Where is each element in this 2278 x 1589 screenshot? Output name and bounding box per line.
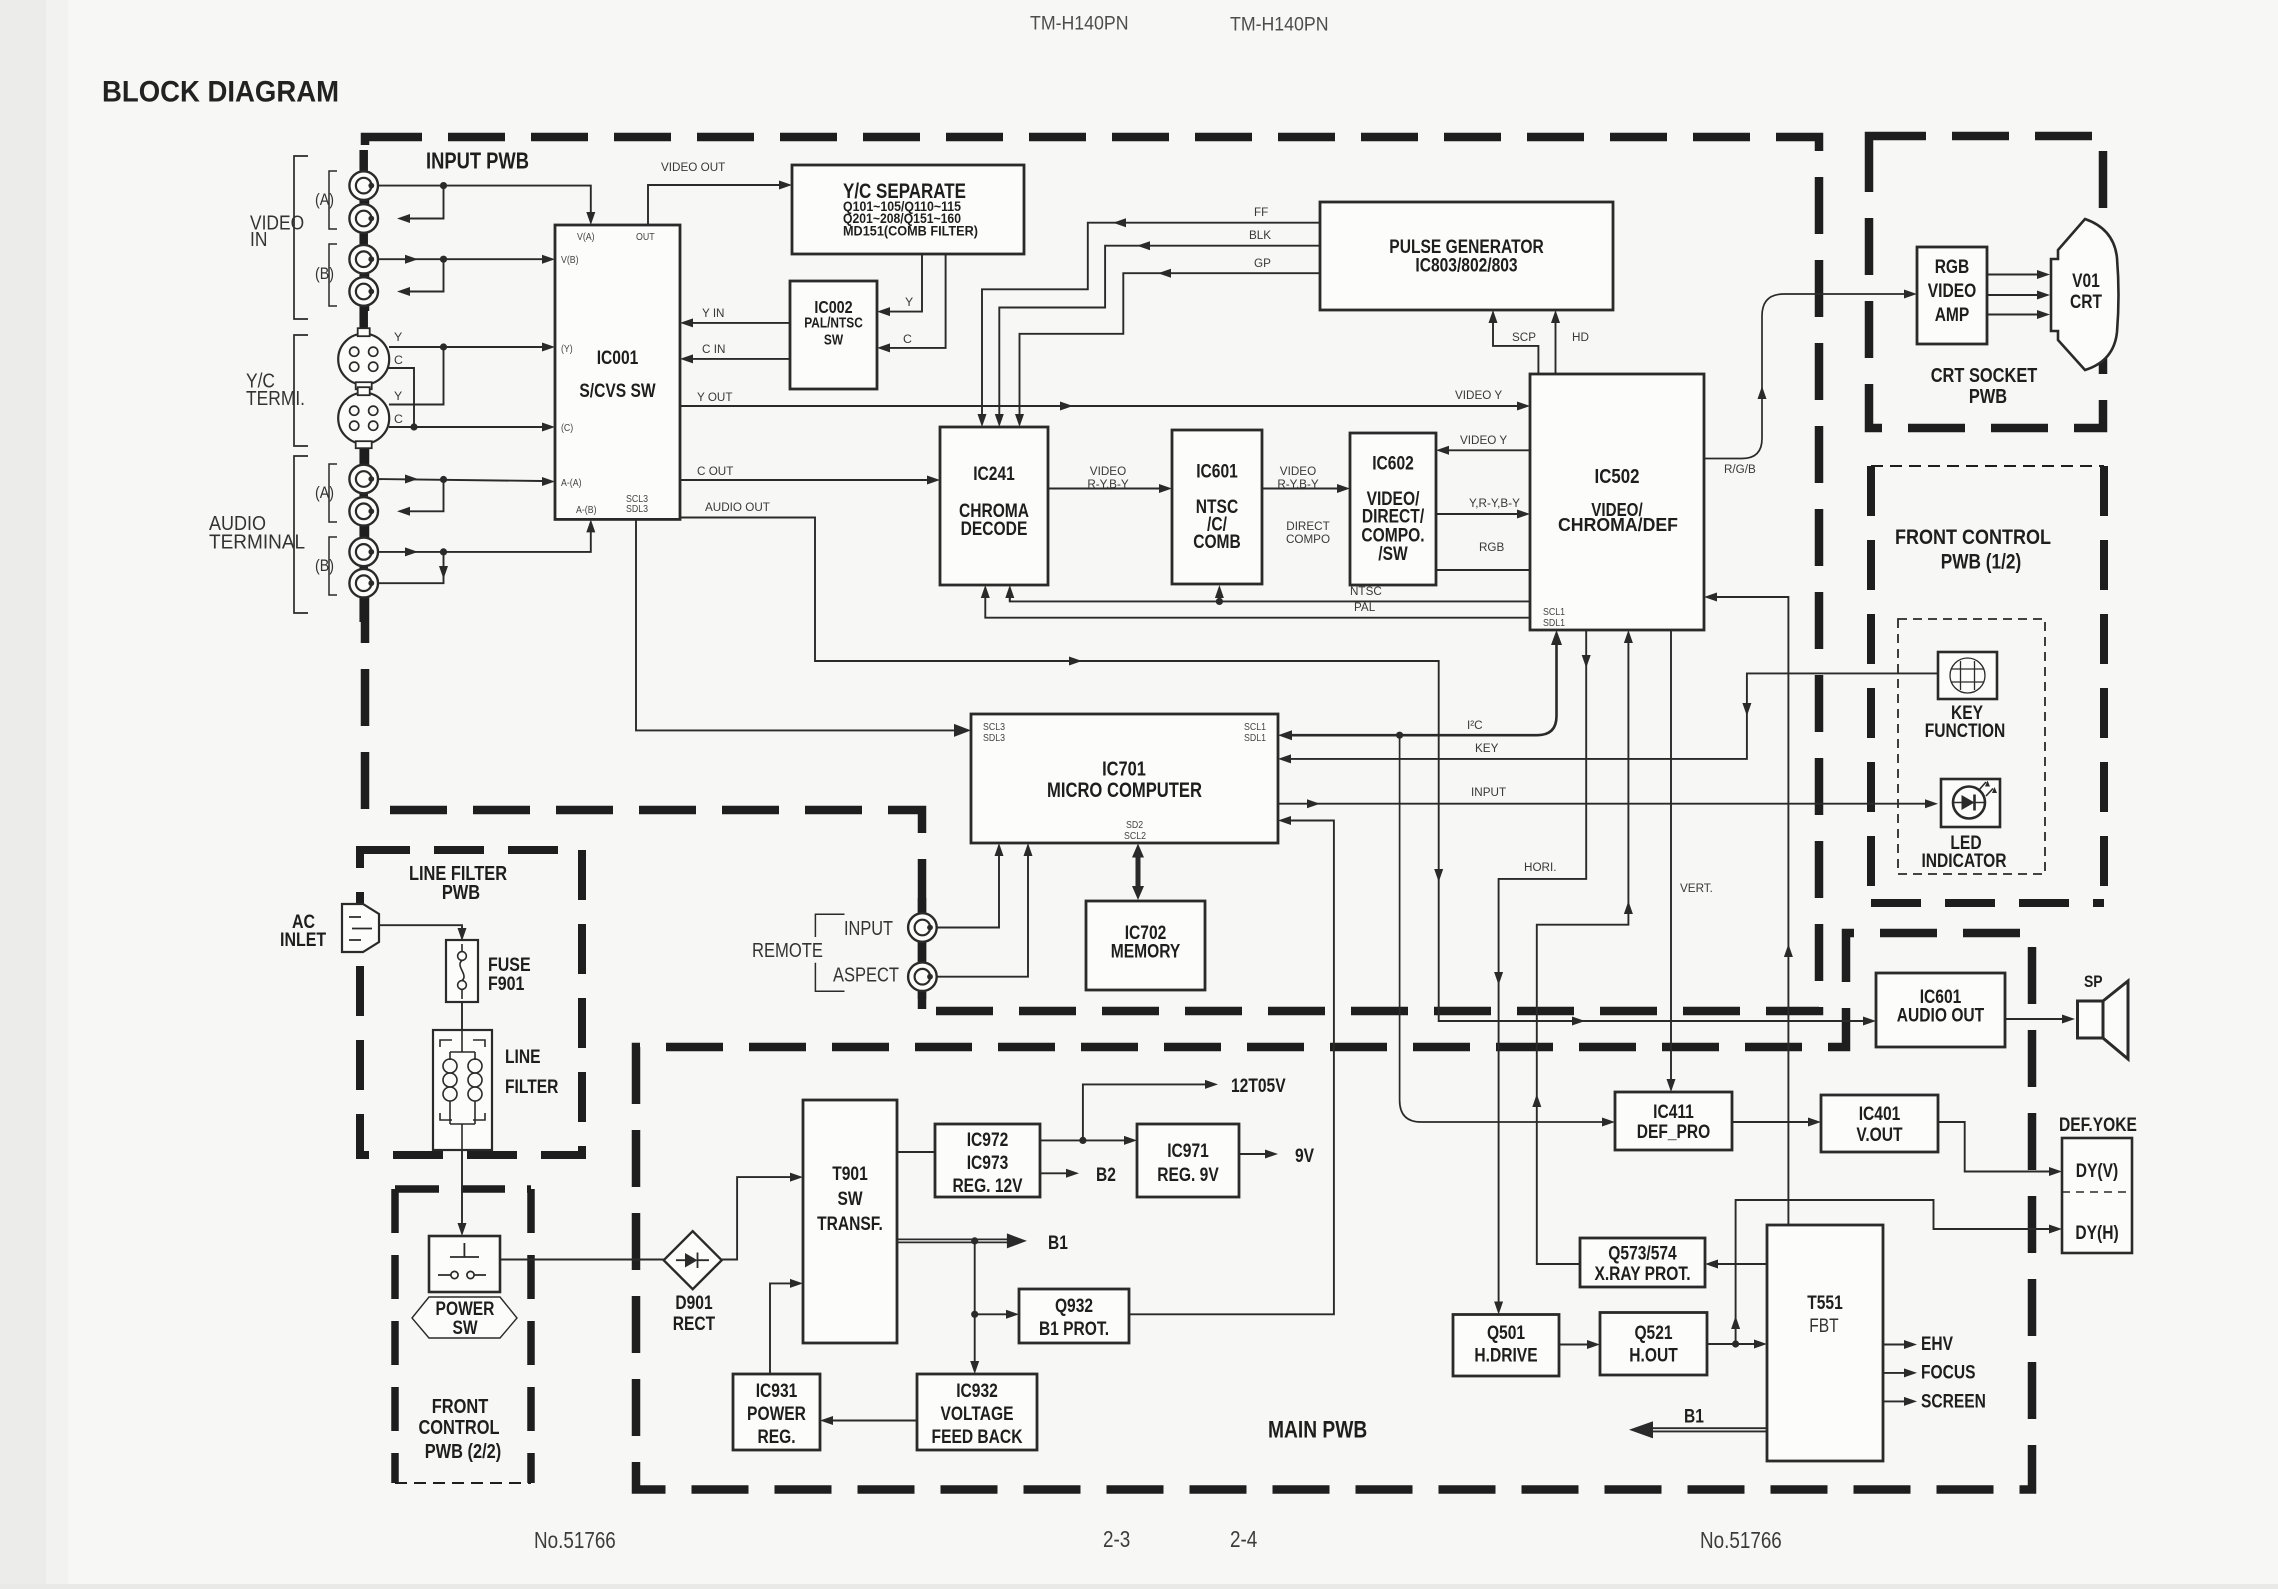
- IC241 CHROMA DECODE: [940, 427, 1048, 585]
- svg-text:SW: SW: [824, 332, 843, 348]
- wire: C IN from IC002 to IC001: [693, 358, 790, 360]
- svg-text:(C): (C): [561, 423, 573, 434]
- wire: PAL from IC502 to IC241: [985, 598, 1530, 618]
- svg-text:FEED BACK: FEED BACK: [932, 1427, 1023, 1448]
- S-video connector: Y/C terminal A: [338, 334, 389, 385]
- wire: SCREEN output: [1883, 1400, 1904, 1402]
- svg-text:Y OUT: Y OUT: [697, 390, 733, 404]
- svg-text:TERMINAL: TERMINAL: [209, 532, 305, 554]
- svg-text:SCL1: SCL1: [1543, 607, 1565, 618]
- svg-text:AUDIO OUT: AUDIO OUT: [705, 500, 770, 514]
- RCA jack: audio A1: [349, 465, 378, 494]
- wire: RGB from IC602 to IC502: [1436, 569, 1530, 571]
- svg-text:HD: HD: [1572, 330, 1589, 344]
- svg-text:VIDEO Y: VIDEO Y: [1455, 388, 1502, 402]
- svg-text:IN: IN: [250, 229, 267, 251]
- wire: Y OUT / VIDEO Y long line from IC001 to IC502: [680, 405, 1517, 407]
- wire: Y IN from IC002 to IC001: [693, 322, 790, 324]
- wire: video A1 to IC001 V(A): [372, 186, 591, 212]
- wire: KEY from KEY FUNCTION to IC701: [1291, 673, 1938, 759]
- svg-text:Q521: Q521: [1634, 1323, 1672, 1344]
- svg-text:SD2: SD2: [1126, 820, 1143, 831]
- wire: GP from PULSE GENERATOR to IC241: [1020, 273, 1321, 414]
- svg-text:SCREEN: SCREEN: [1921, 1392, 1986, 1413]
- wire: HORI. from IC502 to Q501: [1499, 630, 1587, 1302]
- svg-text:OUT: OUT: [636, 232, 655, 243]
- svg-text:MD151(COMB FILTER): MD151(COMB FILTER): [843, 224, 978, 239]
- PULSE GENERATOR IC803/802/803: [1320, 202, 1613, 310]
- svg-text:Y: Y: [905, 295, 913, 309]
- svg-text:C: C: [394, 353, 403, 367]
- IC971 REG.9V regulator: [1137, 1124, 1239, 1197]
- wire: INPUT from IC701 to LED INDICATOR: [1278, 803, 1925, 805]
- svg-text:FILTER: FILTER: [505, 1077, 559, 1098]
- wire: IC972 to IC971 with 12T05V branch: [1040, 1139, 1124, 1141]
- svg-text:GP: GP: [1254, 256, 1271, 270]
- wire: I2C bus from IC502 to IC701 and IC411: [1291, 636, 1557, 735]
- Q521 H.OUT: [1600, 1313, 1707, 1376]
- svg-text:No.51766: No.51766: [534, 1527, 616, 1553]
- svg-text:PWB (2/2): PWB (2/2): [425, 1441, 502, 1463]
- RCA jack: audio B1: [349, 538, 378, 567]
- svg-text:Q932: Q932: [1055, 1296, 1093, 1317]
- wire: line filter to power switch: [461, 1150, 463, 1223]
- wire: VIDEO R-Y,B-Y from IC241 to IC601: [1048, 488, 1159, 490]
- svg-text:2-4: 2-4: [1230, 1526, 1257, 1552]
- svg-text:MAIN PWB: MAIN PWB: [1268, 1417, 1367, 1444]
- group bracket: AUDIO TERMINAL: [294, 456, 308, 613]
- svg-text:PWB: PWB: [1969, 386, 2007, 408]
- svg-text:IC601: IC601: [1196, 462, 1238, 483]
- wire: Y,R-Y,B-Y from IC602 to IC502: [1436, 513, 1517, 515]
- wire: SCL3/SDL3 from IC001 to IC701: [636, 519, 954, 730]
- svg-text:S/CVS SW: S/CVS SW: [579, 381, 655, 402]
- svg-text:Y: Y: [394, 330, 402, 344]
- S-video connector: Y/C terminal B: [338, 393, 389, 444]
- svg-text:D901: D901: [675, 1293, 713, 1314]
- wire: loop out to video A2 jack: [410, 186, 444, 219]
- bracket: remote aspect: [815, 963, 844, 991]
- svg-text:V.OUT: V.OUT: [1856, 1125, 1903, 1146]
- RGB VIDEO AMP: [1917, 247, 1987, 344]
- svg-text:PWB (1/2): PWB (1/2): [1941, 551, 2021, 574]
- wire: video B1 to IC001 V(B): [372, 258, 543, 260]
- svg-text:INDICATOR: INDICATOR: [1921, 851, 2006, 872]
- wire: B2 output from IC972: [1040, 1172, 1066, 1174]
- RCA jack: video in A2: [349, 204, 378, 233]
- svg-text:IC241: IC241: [973, 464, 1015, 485]
- svg-text:C: C: [903, 332, 912, 346]
- svg-text:X.RAY PROT.: X.RAY PROT.: [1594, 1264, 1690, 1285]
- RCA jack: video in B2: [349, 277, 378, 306]
- svg-text:INLET: INLET: [280, 929, 326, 951]
- svg-text:IC931: IC931: [756, 1381, 798, 1402]
- wire: R/G/B from IC502 to RGB VIDEO AMP: [1704, 294, 1904, 459]
- wire: C from Y/C SEPARATE to IC002: [890, 254, 946, 348]
- wire: Y/C A - Y signal to IC001 (Y): [389, 346, 542, 348]
- wire: C OUT from IC001 to IC241: [680, 479, 927, 481]
- svg-text:VIDEO: VIDEO: [1090, 464, 1126, 478]
- wire: loop out to video B2 jack: [410, 259, 444, 291]
- svg-text:DIRECT/: DIRECT/: [1362, 507, 1425, 528]
- power switch icon: [429, 1236, 500, 1292]
- svg-text:FF: FF: [1254, 205, 1269, 219]
- PWB border solid segment behind input jack column: [359, 150, 368, 622]
- wire: REMOTE ASPECT jack to IC701: [930, 856, 1029, 977]
- svg-text:T901: T901: [832, 1164, 868, 1185]
- RCA jack: remote input: [908, 913, 937, 942]
- svg-text:R/G/B: R/G/B: [1724, 462, 1756, 476]
- PWB outline: INPUT PWB (dashed): [365, 137, 1819, 1011]
- svg-text:SDL3: SDL3: [983, 733, 1005, 744]
- svg-text:REMOTE: REMOTE: [752, 940, 823, 962]
- wire: branch down to audio B2 jack: [372, 552, 444, 583]
- svg-text:TM-H140PN: TM-H140PN: [1230, 14, 1329, 36]
- wire: AC inlet to fuse: [379, 925, 462, 929]
- svg-text:TRANSF.: TRANSF.: [817, 1214, 883, 1235]
- wire: VERT. from IC502 to IC411: [1670, 630, 1672, 1079]
- wire: flyback pulse from T551 to IC502: [1717, 597, 1788, 1224]
- wire: B1 protect from Q932 to IC701: [1129, 821, 1334, 1315]
- PWB outline: CRT SOCKET PWB (dashed): [1869, 136, 2103, 428]
- svg-text:No.51766: No.51766: [1700, 1527, 1782, 1553]
- Q573/574 X.RAY PROT.: [1580, 1238, 1705, 1287]
- svg-text:REG.: REG.: [757, 1427, 795, 1448]
- wire: VIDEO R-Y,B-Y from IC601 to IC602: [1262, 488, 1337, 490]
- svg-text:SDL1: SDL1: [1244, 733, 1266, 744]
- svg-text:IC411: IC411: [1653, 1102, 1694, 1123]
- PWB outline: LINE FILTER PWB (dashed): [360, 850, 582, 1155]
- T901 SW TRANSF. switching transformer: [803, 1100, 897, 1343]
- RCA jack: video in B1: [349, 245, 378, 274]
- wire: Q521 to T551 with junction: [1707, 1343, 1754, 1345]
- svg-text:FRONT: FRONT: [432, 1396, 489, 1418]
- svg-text:IC001: IC001: [597, 348, 639, 369]
- svg-text:IC973: IC973: [967, 1153, 1009, 1174]
- wire: Y/C A - C signal: [388, 368, 414, 427]
- svg-text:INPUT: INPUT: [844, 918, 893, 940]
- svg-text:RECT: RECT: [673, 1314, 716, 1335]
- svg-text:(Y): (Y): [561, 344, 573, 355]
- D901 RECT bridge rectifier diamond: [664, 1231, 722, 1289]
- IC602 VIDEO/DIRECT/COMPO./SW: [1350, 433, 1436, 585]
- svg-text:REG. 12V: REG. 12V: [952, 1176, 1022, 1197]
- svg-text:PWB: PWB: [442, 882, 480, 904]
- svg-text:INPUT PWB: INPUT PWB: [426, 148, 529, 174]
- IC702 MEMORY: [1086, 901, 1205, 990]
- PWB outline: MAIN PWB (dashed): [636, 933, 2032, 1490]
- svg-text:VERT.: VERT.: [1680, 881, 1713, 895]
- KEY FUNCTION icon: [1938, 652, 1997, 699]
- svg-text:H.OUT: H.OUT: [1629, 1346, 1678, 1367]
- IC411 DEF_PRO: [1615, 1092, 1732, 1150]
- T551 FBT flyback transformer: [1767, 1225, 1883, 1461]
- svg-text:FRONT CONTROL: FRONT CONTROL: [1895, 526, 2051, 549]
- IC502 VIDEO/CHROMA/DEF: [1530, 374, 1704, 630]
- svg-text:SW: SW: [837, 1189, 862, 1210]
- svg-text:V(B): V(B): [561, 255, 579, 266]
- svg-text:T551: T551: [1807, 1293, 1843, 1314]
- wire: IC411 to IC401: [1732, 1121, 1808, 1123]
- RCA jack: audio A2: [349, 497, 378, 526]
- V01 CRT picture tube symbol: [2051, 219, 2119, 370]
- svg-text:Y IN: Y IN: [702, 306, 725, 320]
- IC601 AUDIO OUT: [1876, 973, 2005, 1047]
- svg-text:F901: F901: [488, 973, 525, 995]
- RCA jack: remote aspect: [908, 962, 937, 991]
- box: deflection yoke DY(V)/DY(H): [2062, 1138, 2132, 1253]
- svg-text:B1: B1: [1684, 1407, 1704, 1428]
- line filter symbol: [433, 1030, 492, 1150]
- bracket: audio (A): [329, 464, 337, 522]
- svg-text:PAL/NTSC: PAL/NTSC: [804, 315, 863, 331]
- svg-text:B1 PROT.: B1 PROT.: [1039, 1319, 1109, 1340]
- svg-text:H.DRIVE: H.DRIVE: [1474, 1346, 1537, 1367]
- svg-text:LINE: LINE: [505, 1047, 541, 1068]
- wire: FF from PULSE GENERATOR to IC241: [982, 223, 1320, 414]
- speaker SP symbol: [2078, 1001, 2104, 1038]
- svg-text:VIDEO: VIDEO: [1928, 281, 1977, 302]
- svg-text:I²C: I²C: [1467, 718, 1483, 732]
- wire: T551 to X.RAY PROT: [1718, 1263, 1767, 1265]
- svg-text:FOCUS: FOCUS: [1921, 1363, 1976, 1384]
- svg-text:POWER: POWER: [436, 1299, 495, 1320]
- svg-text:INPUT: INPUT: [1471, 785, 1507, 799]
- wire: audio A1 to IC001 A-(A): [372, 479, 543, 481]
- svg-text:DECODE: DECODE: [961, 519, 1028, 540]
- svg-text:KEY: KEY: [1475, 741, 1498, 755]
- PWB outline: FRONT CONTROL PWB 2/2 (dashed): [395, 1185, 531, 1193]
- bracket: video (A): [329, 171, 337, 229]
- svg-text:(B): (B): [315, 264, 334, 283]
- PWB border solid segment behind remote jacks: [918, 898, 927, 1009]
- svg-text:CRT: CRT: [2070, 292, 2102, 313]
- wire: IC931 to T901: [770, 1283, 790, 1374]
- svg-text:IC971: IC971: [1167, 1141, 1209, 1162]
- svg-text:CONTROL: CONTROL: [418, 1417, 499, 1439]
- svg-text:B1: B1: [1048, 1233, 1068, 1254]
- svg-text:SDL3: SDL3: [626, 504, 648, 515]
- bracket: video (B): [329, 244, 337, 306]
- wire: BLK from PULSE GENERATOR to IC241: [999, 246, 1320, 414]
- svg-text:NTSC: NTSC: [1350, 584, 1382, 598]
- svg-text:SCL1: SCL1: [1244, 722, 1266, 733]
- svg-text:Y: Y: [394, 389, 402, 403]
- svg-text:2-3: 2-3: [1103, 1526, 1130, 1552]
- svg-text:BLK: BLK: [1249, 228, 1272, 242]
- svg-text:SCL3: SCL3: [983, 722, 1005, 733]
- svg-text:Q501: Q501: [1487, 1323, 1525, 1344]
- svg-text:FBT: FBT: [1809, 1316, 1839, 1337]
- svg-text:AMP: AMP: [1935, 305, 1970, 326]
- Q501 H.DRIVE: [1453, 1315, 1559, 1377]
- svg-text:DIRECT: DIRECT: [1286, 519, 1330, 533]
- inner dashed box: key/led group: [1898, 619, 2045, 874]
- wire: IC932 to IC931: [833, 1420, 917, 1422]
- svg-text:TM-H140PN: TM-H140PN: [1030, 13, 1129, 35]
- AC INLET connector: [342, 904, 379, 952]
- wire: branch down to Q932: [975, 1241, 1006, 1314]
- wire: branch down to IC932: [974, 1314, 976, 1361]
- svg-text:Q573/574: Q573/574: [1608, 1244, 1677, 1265]
- wire: fuse to line filter: [461, 1002, 463, 1030]
- svg-text:DEF_PRO: DEF_PRO: [1637, 1122, 1711, 1143]
- svg-text:RGB: RGB: [1479, 540, 1504, 554]
- svg-text:C: C: [394, 412, 403, 426]
- svg-text:12T05V: 12T05V: [1231, 1076, 1286, 1097]
- svg-text:SCP: SCP: [1512, 330, 1536, 344]
- svg-text:BLOCK DIAGRAM: BLOCK DIAGRAM: [102, 76, 339, 109]
- svg-text:SP: SP: [2084, 972, 2103, 991]
- IC401 V.OUT: [1821, 1095, 1938, 1152]
- svg-text:IC502: IC502: [1595, 465, 1640, 488]
- svg-text:IC401: IC401: [1859, 1104, 1901, 1125]
- wire: D901 to T901: [722, 1177, 790, 1259]
- IC001 S/CVS SW input switch: [555, 225, 680, 519]
- wire: HD from IC502 to PULSE GENERATOR: [1555, 323, 1557, 374]
- fuse F901 symbol: [446, 940, 478, 1002]
- svg-text:V(A): V(A): [577, 232, 595, 243]
- wire: VIDEO Y from IC502 back to IC602: [1449, 449, 1530, 451]
- LED INDICATOR icon: [1941, 779, 2000, 827]
- IC601 NTSC/C/COMB: [1172, 430, 1262, 584]
- svg-text:DY(H): DY(H): [2075, 1223, 2118, 1244]
- RCA jack: video in A1: [349, 171, 378, 200]
- svg-text:DY(V): DY(V): [2076, 1161, 2118, 1182]
- bracket: remote input: [815, 914, 844, 937]
- svg-text:COMB: COMB: [1193, 532, 1241, 553]
- svg-text:IC602: IC602: [1372, 454, 1414, 475]
- box: Y/C SEPARATE comb filter: [792, 165, 1024, 254]
- IC932 VOLTAGE FEED BACK: [917, 1374, 1037, 1450]
- POWER SW hexagon label: [412, 1297, 517, 1338]
- svg-text:MEMORY: MEMORY: [1111, 942, 1181, 963]
- wire: IC401 to DY(V): [1938, 1122, 2049, 1172]
- svg-text:R-Y,B-Y: R-Y,B-Y: [1277, 477, 1318, 491]
- RCA jack: audio B2: [349, 569, 378, 598]
- svg-text:COMPO: COMPO: [1286, 532, 1330, 546]
- Q932 B1 PROT.: [1019, 1289, 1129, 1343]
- svg-text:VIDEO Y: VIDEO Y: [1460, 433, 1507, 447]
- svg-text:/SW: /SW: [1378, 544, 1407, 565]
- svg-text:IC932: IC932: [956, 1381, 998, 1402]
- bus: SD2/SCL2 between IC701 and IC702 (double arrow): [1136, 849, 1141, 894]
- wire: FOCUS output: [1883, 1372, 1904, 1374]
- wires: RGB VIDEO AMP to CRT (3 lines): [1987, 274, 2037, 276]
- svg-text:C IN: C IN: [702, 342, 725, 356]
- svg-text:SW: SW: [452, 1318, 477, 1339]
- wire: AUDIO OUT from IC001 routed to IC601 AUDIO OUT: [680, 518, 1863, 1022]
- svg-text:AUDIO OUT: AUDIO OUT: [1897, 1006, 1985, 1027]
- svg-text:9V: 9V: [1295, 1146, 1314, 1167]
- svg-text:IC803/802/803: IC803/802/803: [1415, 256, 1517, 277]
- svg-text:B2: B2: [1096, 1165, 1116, 1186]
- wire: Y/C B - Y signal branch: [389, 347, 444, 405]
- svg-text:FUNCTION: FUNCTION: [1925, 721, 2006, 742]
- wire: Y/C B - C signal to IC001 (C): [389, 426, 542, 428]
- wire: B1 feed from T551 (double line): [1650, 1428, 1767, 1431]
- svg-text:REG. 9V: REG. 9V: [1157, 1165, 1219, 1186]
- wire: power switch to D901 rectifier: [500, 1259, 664, 1261]
- wire: REMOTE INPUT jack to IC701: [930, 856, 1000, 928]
- wire: B1 bus from T901 (double line): [897, 1239, 1008, 1242]
- svg-text:A-(A): A-(A): [561, 478, 582, 489]
- svg-text:TERMI.: TERMI.: [246, 388, 305, 410]
- wire: audio B1 to IC001 A-(B) bottom pin: [372, 532, 591, 552]
- IC931 POWER REG.: [733, 1374, 820, 1450]
- svg-text:(B): (B): [315, 556, 334, 575]
- bracket: audio (B): [329, 537, 337, 595]
- svg-text:VIDEO: VIDEO: [1280, 464, 1316, 478]
- svg-text:VIDEO OUT: VIDEO OUT: [661, 160, 726, 174]
- wire: NTSC from IC502 to IC241 and IC601: [1010, 598, 1530, 601]
- wire: loop out to audio A2 jack: [410, 480, 444, 512]
- svg-text:(A): (A): [315, 190, 334, 209]
- svg-text:HORI.: HORI.: [1524, 860, 1557, 874]
- svg-text:EHV: EHV: [1921, 1334, 1953, 1355]
- IC002 PAL/NTSC SW: [790, 281, 877, 389]
- svg-text:ASPECT: ASPECT: [833, 965, 899, 987]
- svg-text:Y,R-Y,B-Y: Y,R-Y,B-Y: [1469, 496, 1520, 510]
- svg-text:VOLTAGE: VOLTAGE: [941, 1404, 1014, 1425]
- group bracket: VIDEO IN: [294, 156, 308, 319]
- wire: H pulse from junction to DY(H): [1736, 1200, 2049, 1344]
- svg-text:A-(B): A-(B): [576, 505, 597, 516]
- svg-text:MICRO COMPUTER: MICRO COMPUTER: [1047, 778, 1202, 802]
- svg-text:SDL1: SDL1: [1543, 618, 1565, 629]
- wire: audio out to speaker: [2006, 1018, 2062, 1020]
- wire: Q501 to Q521: [1559, 1344, 1587, 1346]
- wire: SCP from IC502 to PULSE GENERATOR: [1493, 323, 1538, 374]
- svg-text:IC002: IC002: [814, 297, 853, 317]
- svg-text:V01: V01: [2072, 271, 2100, 292]
- svg-text:CRT SOCKET: CRT SOCKET: [1931, 365, 2038, 387]
- wire: EHV output: [1883, 1344, 1904, 1346]
- svg-text:IC972: IC972: [967, 1130, 1009, 1151]
- wire: T901 to IC972: [897, 1151, 935, 1153]
- wire: VIDEO OUT from IC001 to Y/C SEPARATE: [648, 185, 779, 225]
- svg-text:(A): (A): [315, 483, 334, 502]
- PWB outline: FRONT CONTROL PWB 1/2 (dashed): [1871, 465, 2104, 467]
- svg-text:C OUT: C OUT: [697, 464, 734, 478]
- svg-text:CHROMA/DEF: CHROMA/DEF: [1558, 514, 1678, 535]
- wire: Y from Y/C SEPARATE to IC002: [890, 254, 922, 312]
- svg-text:PAL: PAL: [1354, 600, 1375, 614]
- svg-text:DEF.YOKE: DEF.YOKE: [2059, 1115, 2137, 1136]
- IC701 MICRO COMPUTER: [971, 714, 1278, 843]
- wire: 9V output from IC971: [1239, 1153, 1265, 1155]
- svg-text:RGB: RGB: [1935, 257, 1970, 278]
- IC972/IC973 REG.12V regulator: [935, 1124, 1040, 1197]
- group bracket: Y/C TERMI.: [294, 335, 308, 446]
- wire: X-ray protect feedback to IC502: [1537, 643, 1629, 1264]
- svg-text:SCL2: SCL2: [1124, 831, 1146, 842]
- svg-text:R-Y,B-Y: R-Y,B-Y: [1087, 477, 1128, 491]
- svg-text:POWER: POWER: [747, 1404, 806, 1425]
